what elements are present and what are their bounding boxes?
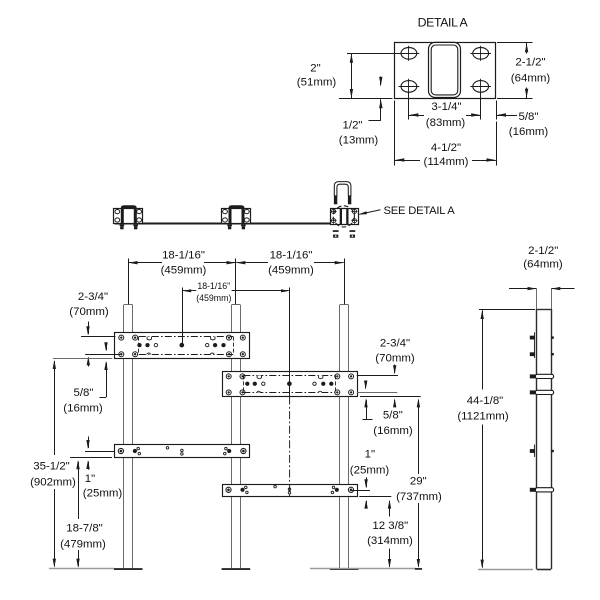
plate 1 screw	[119, 352, 124, 357]
svg-text:12 3/8": 12 3/8"	[372, 520, 408, 532]
detail A mounting plate	[395, 43, 496, 99]
svg-text:18-1/16": 18-1/16"	[270, 249, 313, 261]
plate 1 screw	[227, 335, 232, 340]
dimension 44-1/8in (1121mm)	[479, 309, 535, 311]
svg-text:(64mm): (64mm)	[511, 73, 551, 85]
plan-view bracket at x=235.9	[222, 209, 251, 224]
svg-text:(1121mm): (1121mm)	[457, 410, 508, 422]
dimension 18-7/8in (479mm)	[78, 462, 80, 520]
svg-text:(114mm): (114mm)	[424, 156, 469, 168]
anchor marks below bracket	[333, 230, 339, 232]
floor line left	[49, 568, 114, 570]
side view through-band	[535, 488, 553, 492]
svg-text:(83mm): (83mm)	[426, 117, 466, 129]
wire wall line (plan view)	[115, 223, 330, 225]
svg-text:(314mm): (314mm)	[367, 535, 413, 547]
dimension 2-3/4in (70mm) right	[357, 375, 398, 377]
svg-text:(16mm): (16mm)	[373, 425, 413, 437]
narrow plate fasteners	[226, 487, 231, 492]
detail A bolt hole	[473, 48, 489, 60]
svg-text:(16mm): (16mm)	[63, 403, 103, 415]
svg-text:(16mm): (16mm)	[509, 126, 549, 138]
plate 1 screw	[240, 335, 245, 340]
plan-view bracket at x=128.2	[114, 209, 143, 224]
svg-text:(13mm): (13mm)	[339, 135, 379, 147]
side view bolt head	[530, 336, 535, 340]
side view plate 1 profile	[534, 332, 536, 358]
svg-text:(25mm): (25mm)	[350, 465, 390, 477]
dimension 2-1/2in (64mm) side	[536, 289, 538, 309]
plate 2 screw	[240, 374, 245, 379]
svg-text:29": 29"	[410, 476, 427, 488]
dimension 3-1/4in (83mm)	[408, 93, 410, 120]
floor line side view	[478, 569, 533, 571]
plate 2 screw	[335, 390, 340, 395]
dimension 2in (51mm)	[347, 53, 401, 55]
plate 2 screw	[240, 390, 245, 395]
svg-text:(459mm): (459mm)	[268, 264, 314, 276]
svg-text:5/8": 5/8"	[74, 387, 94, 399]
svg-text:(459mm): (459mm)	[196, 293, 231, 303]
dimension 5/8in (16mm) left	[53, 358, 112, 360]
dimension 2-1/2in (64mm) detail	[497, 42, 533, 44]
svg-text:(479mm): (479mm)	[60, 539, 106, 551]
dimension 1in (25mm) right	[352, 490, 370, 492]
dimension 5/8in (16mm) detail	[496, 101, 498, 120]
dimension 12-3/8in (314mm)	[389, 501, 391, 517]
svg-text:(70mm): (70mm)	[375, 353, 415, 365]
plate 1 screw	[119, 335, 124, 340]
svg-text:(51mm): (51mm)	[297, 77, 337, 89]
svg-text:5/8": 5/8"	[383, 410, 403, 422]
floor line mid-right	[310, 568, 416, 570]
svg-text:2-1/2": 2-1/2"	[528, 245, 558, 257]
plate 2 screw	[349, 374, 354, 379]
svg-text:35-1/2": 35-1/2"	[33, 461, 70, 473]
svg-text:(737mm): (737mm)	[396, 491, 442, 503]
side view bolt head	[530, 449, 535, 453]
mounting plate 3 (lower left)	[115, 445, 250, 458]
svg-text:5/8": 5/8"	[519, 111, 539, 123]
dimension 1/2in (13mm)	[380, 77, 382, 86]
detail A bolt hole	[401, 81, 417, 93]
svg-text:(459mm): (459mm)	[161, 264, 207, 276]
dimension 4-1/2in (114mm)	[394, 101, 396, 166]
detail A bolt hole	[473, 81, 489, 93]
svg-text:18-1/16": 18-1/16"	[162, 249, 205, 261]
dimension 35-1/2in (902mm)	[54, 361, 56, 455]
mounting plate 1 (upper left)	[115, 333, 250, 359]
plate 1 screw	[133, 352, 138, 357]
plate 2 screw	[226, 390, 231, 395]
plate 2 screw	[335, 374, 340, 379]
detail A bolt hole	[401, 48, 417, 60]
svg-text:18-7/8": 18-7/8"	[66, 523, 103, 535]
dimension 2-3/4in (70mm) left	[81, 336, 116, 338]
narrow plate fasteners	[118, 448, 123, 453]
dimension 18-1/16in span right	[236, 262, 268, 264]
svg-text:(70mm): (70mm)	[69, 306, 109, 318]
detail A post tube section	[429, 42, 461, 97]
svg-text:44-1/8": 44-1/8"	[467, 395, 504, 407]
svg-text:DETAIL A: DETAIL A	[418, 16, 469, 30]
leader SEE DETAIL A	[360, 210, 381, 214]
dimension 29in (737mm)	[418, 400, 420, 474]
svg-text:3-1/4": 3-1/4"	[431, 101, 461, 113]
svg-text:2-3/4": 2-3/4"	[380, 338, 410, 350]
svg-text:(64mm): (64mm)	[523, 259, 563, 271]
dimension 1in (25mm) left	[85, 451, 115, 453]
svg-text:2-1/2": 2-1/2"	[515, 57, 545, 69]
svg-text:1": 1"	[365, 448, 375, 460]
plate 2 screw	[349, 390, 354, 395]
dimension 18-1/16in span left	[128, 259, 130, 305]
mounting plate 4 (bottom right)	[223, 485, 358, 497]
post (front view) at x=344.1	[339, 305, 341, 569]
svg-text:1/2": 1/2"	[343, 120, 363, 132]
U-bolt	[334, 182, 351, 196]
plate 1 screw	[133, 335, 138, 340]
svg-text:(902mm): (902mm)	[30, 477, 76, 489]
dimension 18-1/16in plate centers	[182, 288, 184, 346]
mounting plate 2 (middle right)	[223, 372, 358, 397]
svg-text:2-3/4": 2-3/4"	[78, 291, 108, 303]
detail indicator circle	[333, 206, 354, 227]
svg-text:SEE DETAIL A: SEE DETAIL A	[384, 205, 456, 217]
side view bolt head	[530, 352, 535, 356]
dimension 5/8in (16mm) right	[357, 392, 397, 394]
side view post	[536, 309, 538, 569]
svg-text:(25mm): (25mm)	[83, 487, 123, 499]
svg-text:1": 1"	[85, 473, 95, 485]
svg-text:18-1/16": 18-1/16"	[197, 281, 230, 291]
svg-text:2": 2"	[310, 63, 320, 75]
side view through-band	[535, 390, 553, 394]
plan-view bracket with U-bolt (detail A)	[331, 209, 359, 225]
plate 1 screw	[240, 352, 245, 357]
plate 2 screw	[226, 374, 231, 379]
post (front view) at x=235.9	[231, 305, 233, 569]
svg-text:4-1/2": 4-1/2"	[431, 142, 461, 154]
post (front view) at x=128.2	[123, 305, 125, 569]
plate 1 screw	[227, 352, 232, 357]
side view through-band	[535, 374, 553, 378]
side view plate 3 profile	[534, 445, 536, 458]
